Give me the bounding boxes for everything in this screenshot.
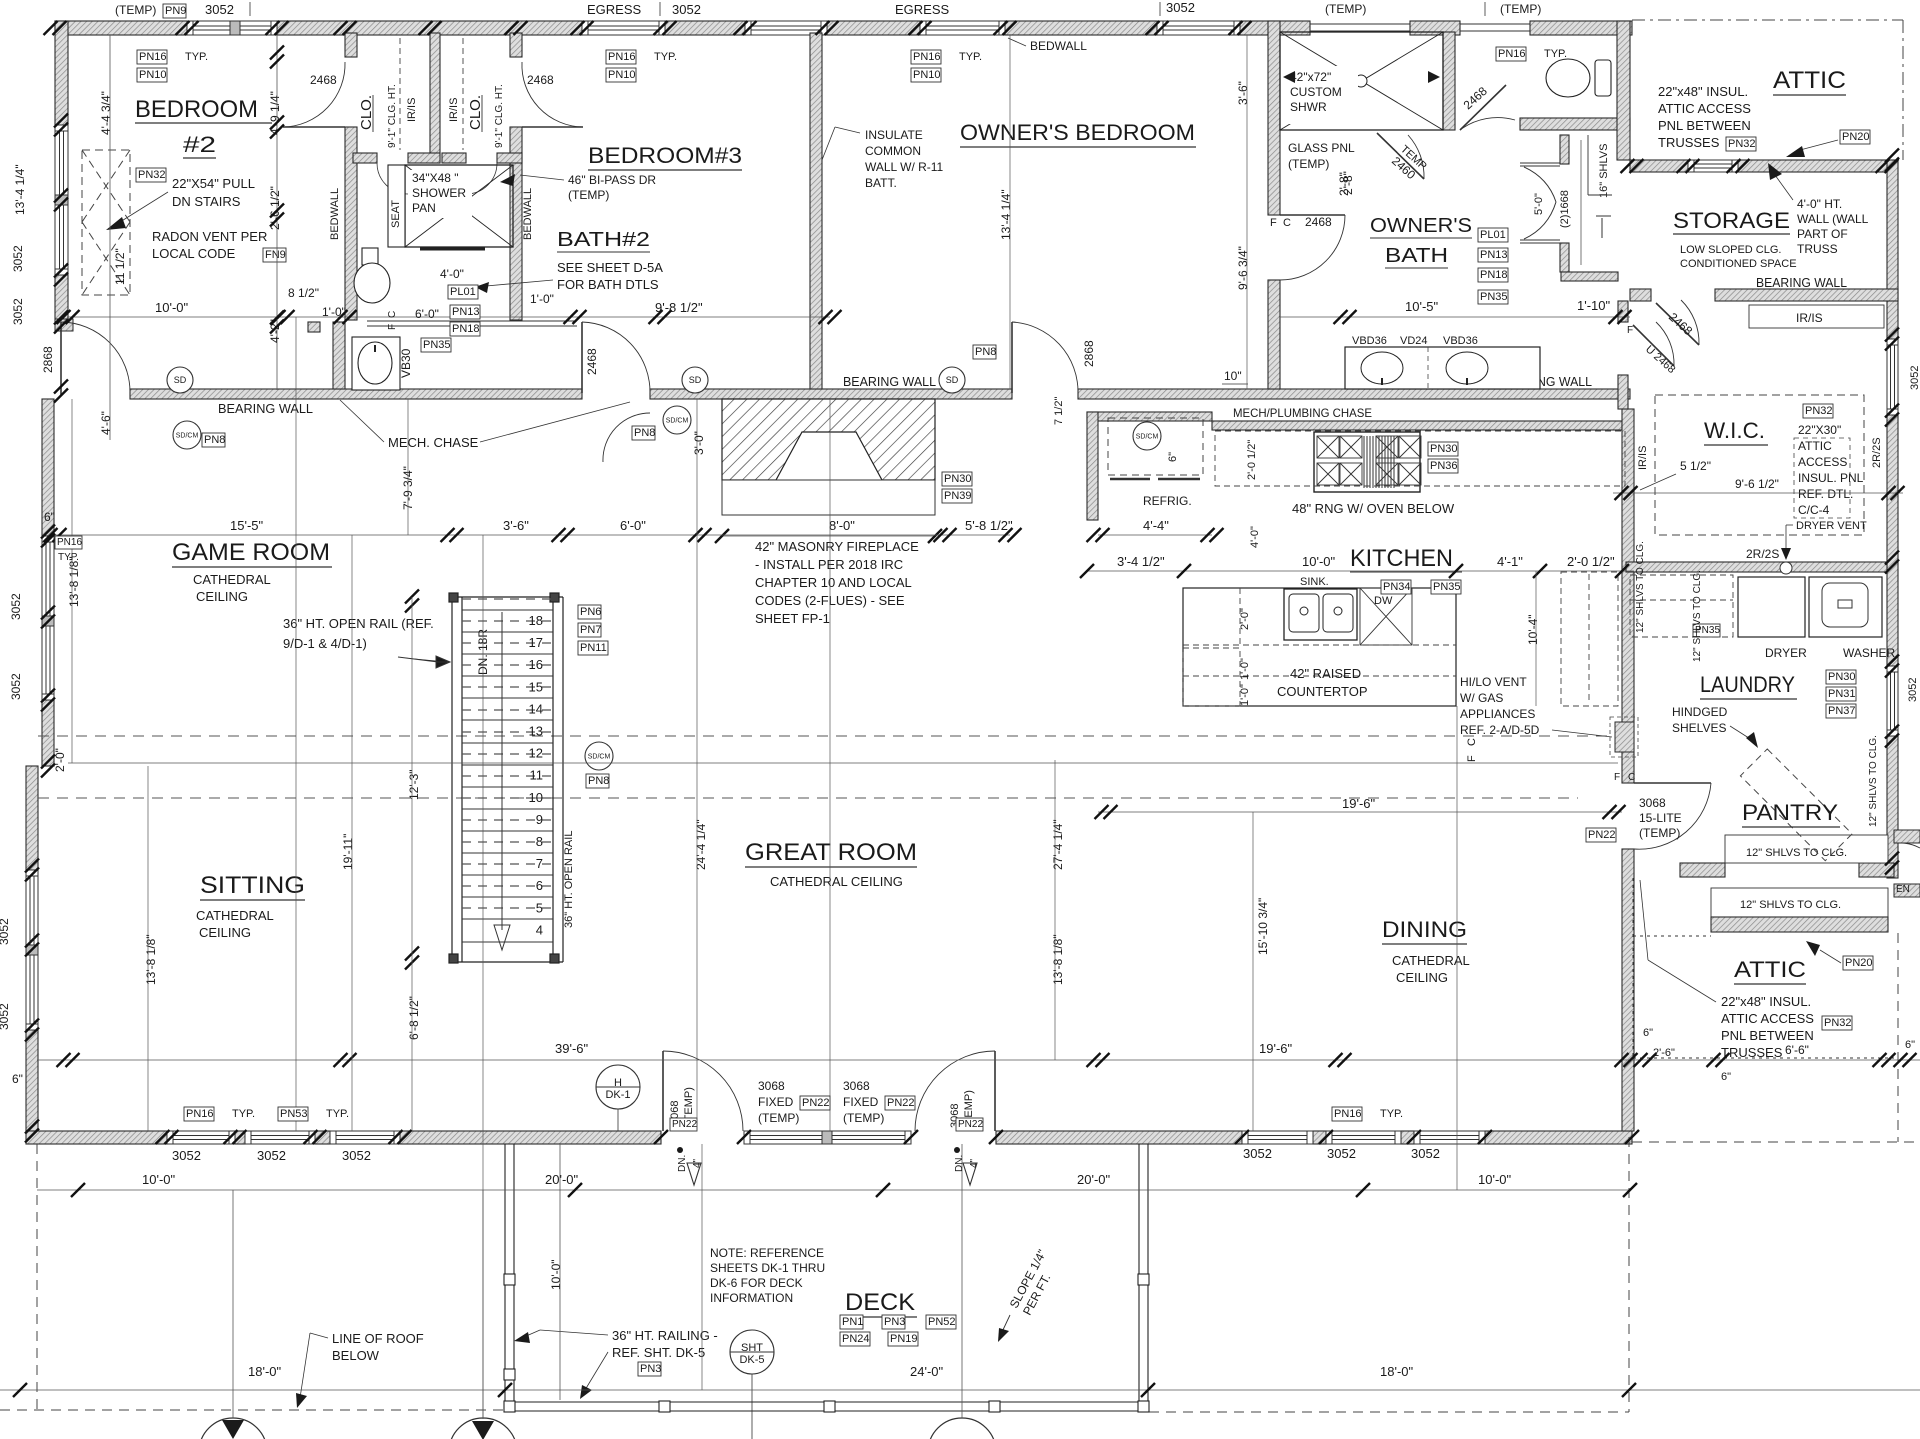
svg-text:3052: 3052 (0, 1003, 11, 1030)
kitchen counter dashed (1215, 431, 1625, 486)
wall bedwall bedroom3 west (510, 33, 522, 57)
svg-text:8 1/2": 8 1/2" (288, 286, 319, 300)
svg-text:PN16: PN16 (608, 51, 636, 63)
svg-text:(2)1668: (2)1668 (1559, 190, 1571, 228)
deck rail bottom (505, 1402, 1148, 1411)
svg-text:PN16: PN16 (186, 1108, 214, 1120)
svg-text:BEARING WALL: BEARING WALL (1756, 275, 1847, 290)
svg-text:PN20: PN20 (1842, 131, 1870, 143)
svg-text:PN16: PN16 (1334, 1108, 1362, 1120)
wall toilet room east / storage west (1617, 21, 1630, 160)
svg-text:13'-4 1/4": 13'-4 1/4" (999, 189, 1013, 240)
svg-text:10'-0": 10'-0" (1302, 554, 1336, 569)
svg-text:PNL BETWEEN: PNL BETWEEN (1658, 118, 1751, 133)
svg-text:TRUSSES: TRUSSES (1721, 1045, 1783, 1060)
svg-text:12" SHLVS TO CLG.: 12" SHLVS TO CLG. (1635, 541, 1646, 633)
svg-text:W/ GAS: W/ GAS (1460, 691, 1503, 705)
svg-text:FIXED: FIXED (843, 1095, 879, 1109)
svg-text:COUNTERTOP: COUNTERTOP (1277, 684, 1368, 699)
storage bottom wall / wic top (1630, 289, 1651, 301)
svg-text:SD/CM: SD/CM (588, 754, 611, 761)
svg-text:18'-0": 18'-0" (248, 1364, 282, 1379)
svg-text:PN7: PN7 (580, 624, 601, 636)
svg-text:1'-0": 1'-0" (1239, 658, 1251, 680)
svg-text:IR/IS: IR/IS (1796, 311, 1823, 325)
svg-text:15'-5": 15'-5" (230, 518, 264, 533)
stair top/bottom ticks (405, 590, 419, 613)
svg-text:OWNER'S: OWNER'S (1370, 215, 1472, 237)
svg-text:RADON VENT PER: RADON VENT PER (152, 229, 267, 244)
svg-text:48" RNG W/ OVEN BELOW: 48" RNG W/ OVEN BELOW (1292, 501, 1455, 516)
svg-text:HINDGED: HINDGED (1672, 705, 1728, 719)
window 3052 top-1 (187, 21, 277, 35)
svg-text:3052: 3052 (9, 673, 23, 700)
svg-text:4: 4 (536, 922, 543, 937)
svg-text:PN8: PN8 (634, 427, 655, 439)
svg-text:36" HT. OPEN RAIL (REF.: 36" HT. OPEN RAIL (REF. (283, 616, 434, 631)
svg-text:PN35: PN35 (1480, 291, 1508, 303)
svg-text:39'-6": 39'-6" (555, 1041, 589, 1056)
svg-text:PN11: PN11 (580, 642, 607, 654)
svg-text:PN13: PN13 (1480, 249, 1508, 261)
svg-text:BEDWALL: BEDWALL (329, 188, 341, 240)
window 3052 bottom-1 (167, 1131, 235, 1144)
svg-text:CEILING: CEILING (199, 925, 251, 940)
vent chase (1615, 722, 1634, 752)
svg-text:20'-0": 20'-0" (545, 1172, 579, 1187)
svg-text:DN STAIRS: DN STAIRS (172, 194, 241, 209)
svg-text:PN6: PN6 (580, 606, 601, 618)
svg-text:PN32: PN32 (1824, 1017, 1852, 1029)
svg-text:9'-1" CLG. HT.: 9'-1" CLG. HT. (387, 84, 398, 148)
svg-text:10'-4": 10'-4" (1526, 614, 1540, 645)
svg-text:VB30: VB30 (399, 348, 413, 378)
svg-text:TYP.: TYP. (1380, 1108, 1403, 1120)
svg-text:BEARING WALL: BEARING WALL (843, 374, 936, 389)
svg-text:FOR BATH DTLS: FOR BATH DTLS (557, 277, 659, 292)
dim row y535 (55, 534, 1010, 536)
svg-text:3068: 3068 (843, 1079, 870, 1093)
svg-text:(TEMP): (TEMP) (568, 188, 609, 202)
svg-text:6'-8 1/2": 6'-8 1/2" (407, 996, 421, 1040)
svg-text:BEDROOM#3: BEDROOM#3 (588, 143, 742, 168)
svg-text:12" SHLVS TO CLG.: 12" SHLVS TO CLG. (1746, 847, 1847, 859)
svg-text:CATHEDRAL: CATHEDRAL (196, 908, 274, 923)
svg-text:PAN: PAN (412, 201, 436, 215)
svg-text:SEE SHEET D-5A: SEE SHEET D-5A (557, 260, 663, 275)
svg-text:16: 16 (529, 657, 543, 672)
svg-text:3052: 3052 (11, 245, 25, 272)
svg-text:ATTIC ACCESS: ATTIC ACCESS (1721, 1011, 1814, 1026)
svg-text:GREAT ROOM: GREAT ROOM (745, 839, 917, 866)
svg-text:(TEMP): (TEMP) (1288, 157, 1329, 171)
svg-text:SD/CM: SD/CM (1136, 434, 1159, 441)
svg-text:PN36: PN36 (1430, 460, 1458, 472)
svg-text:10'-0": 10'-0" (549, 1259, 563, 1290)
svg-text:ATTIC: ATTIC (1798, 439, 1832, 453)
svg-text:PN8: PN8 (975, 346, 996, 358)
window 3052 right-1 (1887, 339, 1898, 415)
svg-text:EGRESS: EGRESS (587, 2, 642, 17)
svg-text:(TEMP): (TEMP) (843, 1111, 884, 1125)
svg-text:3'-6": 3'-6" (1236, 81, 1250, 105)
svg-text:12'-3": 12'-3" (407, 769, 421, 800)
svg-text:13'-8 1/8": 13'-8 1/8" (144, 934, 158, 985)
svg-text:3052: 3052 (11, 298, 25, 325)
svg-text:2468: 2468 (527, 73, 554, 87)
svg-text:DK-1: DK-1 (605, 1089, 630, 1101)
pn16 typ labels bottom wall (184, 1107, 214, 1121)
refrigerator dashed (1108, 418, 1203, 475)
svg-text:11 1/2": 11 1/2" (113, 248, 127, 285)
svg-text:PN20: PN20 (1845, 957, 1873, 969)
svg-text:ATTIC ACCESS: ATTIC ACCESS (1658, 101, 1751, 116)
svg-text:DINING: DINING (1382, 917, 1467, 942)
svg-text:PN16: PN16 (139, 51, 167, 63)
svg-text:DRYER VENT: DRYER VENT (1796, 520, 1867, 532)
svg-text:42"x72": 42"x72" (1290, 70, 1331, 84)
storage top wall (1630, 160, 1688, 172)
svg-text:CEILING: CEILING (196, 589, 248, 604)
svg-text:TRUSS: TRUSS (1797, 242, 1838, 256)
svg-text:3052: 3052 (672, 2, 701, 17)
svg-text:3068: 3068 (758, 1079, 785, 1093)
svg-text:SD/CM: SD/CM (666, 418, 689, 425)
shower pan bath2 (405, 165, 513, 247)
svg-text:12" SHLVS TO CLG.: 12" SHLVS TO CLG. (1692, 570, 1703, 662)
svg-text:7: 7 (536, 856, 543, 871)
wall left sitting (26, 766, 38, 870)
svg-text:4'-4 3/4": 4'-4 3/4" (99, 91, 113, 135)
svg-text:TYP.: TYP. (232, 1108, 255, 1120)
svg-text:IR/IS: IR/IS (448, 98, 460, 122)
svg-text:TYP.: TYP. (959, 51, 982, 63)
sht dk-5 circle (730, 1330, 774, 1374)
wall kitchen west (1087, 412, 1098, 520)
svg-text:36" HT. OPEN RAIL: 36" HT. OPEN RAIL (563, 831, 575, 928)
svg-text:16" SHLVS: 16" SHLVS (1598, 144, 1610, 198)
svg-text:3052: 3052 (172, 1148, 201, 1163)
dryer (1738, 577, 1805, 637)
pn labels bedroom3 (606, 50, 636, 64)
window 3068 fixed bottom-4 (744, 1131, 911, 1144)
svg-text:3'-0": 3'-0" (692, 431, 706, 455)
svg-text:14: 14 (529, 701, 543, 716)
svg-text:IR/IS: IR/IS (1637, 446, 1649, 470)
svg-text:BATH: BATH (1385, 245, 1448, 267)
svg-text:PN9: PN9 (165, 5, 186, 17)
svg-text:PN31: PN31 (1828, 688, 1856, 700)
svg-text:F: F (1627, 325, 1633, 336)
pulldown stairs note (136, 168, 166, 182)
ceiling break dashed lines (38, 735, 1620, 737)
window 3052 bottom-3 (330, 1131, 400, 1144)
svg-text:BELOW: BELOW (332, 1348, 380, 1363)
wall stub game room corner (55, 319, 73, 331)
svg-text:1'-0": 1'-0" (530, 292, 554, 306)
svg-text:PN30: PN30 (1828, 671, 1856, 683)
svg-text:PART OF: PART OF (1797, 227, 1848, 241)
door 2468 bedroom3 (522, 62, 583, 127)
stair treads (462, 610, 553, 942)
mech plumbing chase lower wall (1087, 412, 1212, 421)
door 2468 bedroom2 closet side (283, 62, 345, 127)
svg-text:12: 12 (529, 746, 543, 761)
pantry north walls (1680, 863, 1725, 877)
svg-text:WALL W/ R-11: WALL W/ R-11 (865, 160, 944, 174)
stair down arrow (501, 612, 503, 930)
svg-text:PN10: PN10 (913, 69, 941, 81)
svg-text:3052: 3052 (257, 1148, 286, 1163)
svg-text:PN16: PN16 (1498, 48, 1526, 60)
svg-text:1'-0": 1'-0" (322, 305, 346, 319)
svg-text:6": 6" (12, 1072, 23, 1086)
svg-text:SD/CM: SD/CM (176, 433, 199, 440)
svg-text:PN19: PN19 (890, 1333, 918, 1345)
svg-text:18: 18 (529, 613, 543, 628)
svg-text:9'-8 1/2": 9'-8 1/2" (655, 300, 703, 315)
svg-text:C: C (1466, 738, 1478, 746)
svg-text:C: C (387, 311, 398, 318)
svg-text:3052: 3052 (1243, 1146, 1272, 1161)
storage dim ticks (1621, 159, 1644, 173)
bath2 hall pocket walls (308, 322, 320, 332)
svg-text:PL01: PL01 (450, 286, 476, 298)
svg-text:5 1/2": 5 1/2" (1680, 459, 1711, 473)
svg-text:6'-0": 6'-0" (620, 518, 646, 533)
washer (1809, 577, 1882, 637)
svg-text:4'-0": 4'-0" (440, 267, 464, 281)
svg-text:VBD36: VBD36 (1352, 335, 1387, 347)
svg-text:2468: 2468 (1305, 215, 1332, 229)
svg-text:3052: 3052 (342, 1148, 371, 1163)
svg-text:9: 9 (536, 812, 543, 827)
deck rail posts (504, 1274, 515, 1285)
svg-text:3052: 3052 (1327, 1146, 1356, 1161)
svg-text:PN22: PN22 (672, 1119, 697, 1130)
svg-text:CATHEDRAL: CATHEDRAL (1392, 953, 1470, 968)
bearing wall mid (y391) (130, 389, 582, 399)
window 3052 egress top-4 (920, 21, 1005, 35)
svg-text:C: C (1283, 217, 1291, 229)
svg-text:TYP.: TYP. (326, 1108, 349, 1120)
svg-text:COMMON: COMMON (865, 144, 921, 158)
custom shower (1280, 32, 1443, 130)
svg-text:PANTRY: PANTRY (1742, 800, 1838, 825)
svg-text:BEDROOM: BEDROOM (135, 96, 258, 123)
svg-text:CEILING: CEILING (1396, 970, 1448, 985)
glass panel shower top (1310, 24, 1410, 31)
svg-text:MECH/PLUMBING CHASE: MECH/PLUMBING CHASE (1233, 406, 1372, 420)
window 3052 right-2 (1887, 666, 1898, 736)
svg-text:VBD36: VBD36 (1443, 335, 1478, 347)
svg-text:6'-6": 6'-6" (1785, 1043, 1809, 1057)
door 2868 owners bedroom (1012, 322, 1078, 393)
svg-text:PN18: PN18 (452, 323, 480, 335)
dim row y1187 (37, 1189, 1630, 1191)
svg-text:TYP.: TYP. (1544, 48, 1567, 60)
door 2468 owners bath (1280, 215, 1345, 280)
svg-text:PN35: PN35 (423, 339, 451, 351)
wall owners bath west (1268, 21, 1280, 215)
svg-text:20'-0": 20'-0" (1077, 1172, 1111, 1187)
svg-text:4'-1": 4'-1" (1497, 554, 1523, 569)
svg-text:- INSTALL PER 2018 IRC: - INSTALL PER 2018 IRC (755, 557, 903, 572)
svg-text:MECH. CHASE: MECH. CHASE (388, 435, 479, 450)
svg-text:LAUNDRY: LAUNDRY (1700, 672, 1795, 697)
svg-text:SHOWER: SHOWER (412, 186, 466, 200)
island sink (1284, 589, 1357, 640)
svg-text:22"x48" INSUL.: 22"x48" INSUL. (1721, 994, 1811, 1009)
egress/3052 misc ticks top (44, 21, 67, 35)
svg-text:GAME ROOM: GAME ROOM (172, 539, 330, 566)
bottom wall ticks (156, 1130, 179, 1144)
svg-text:2'-0": 2'-0" (1239, 608, 1251, 630)
svg-text:2868: 2868 (41, 346, 55, 373)
door 2468 toilet room (1460, 85, 1515, 130)
svg-text:3052: 3052 (1909, 366, 1920, 390)
svg-text:6": 6" (1643, 1027, 1653, 1039)
svg-text:34"X48 ": 34"X48 " (412, 171, 459, 185)
wall bottom exterior (26, 1131, 167, 1144)
svg-text:10'-0": 10'-0" (1478, 1172, 1512, 1187)
svg-text:C: C (1628, 772, 1635, 783)
svg-text:SD: SD (946, 375, 959, 385)
wall bedroom3/owners divider (810, 33, 822, 389)
svg-text:PN30: PN30 (944, 473, 972, 485)
svg-text:IR/IS: IR/IS (406, 98, 418, 122)
svg-text:24'-4 1/4": 24'-4 1/4" (694, 819, 708, 870)
svg-text:PN32: PN32 (138, 169, 166, 181)
svg-text:DRYER: DRYER (1765, 646, 1807, 660)
svg-text:F: F (1466, 755, 1478, 762)
svg-text:27'-4 1/4": 27'-4 1/4" (1051, 819, 1065, 870)
pulldown stairs dashed (82, 150, 130, 295)
svg-text:15: 15 (529, 679, 543, 694)
svg-text:PN16: PN16 (57, 537, 82, 548)
window 3052 left-1 (55, 125, 68, 275)
door 2468 hall to great room (582, 322, 650, 393)
svg-text:PN22: PN22 (958, 1119, 983, 1130)
wall left exterior upper (55, 21, 68, 125)
door 3068 pantry 15-lite (1634, 783, 1711, 849)
svg-text:22"X30": 22"X30" (1798, 423, 1841, 437)
svg-text:10'-0": 10'-0" (142, 1172, 176, 1187)
roof dashed right of house (1632, 1141, 1920, 1143)
svg-text:SD: SD (689, 375, 702, 385)
svg-text:19'-6": 19'-6" (1342, 796, 1376, 811)
svg-text:12" SHLVS TO CLG.: 12" SHLVS TO CLG. (1868, 735, 1879, 827)
svg-text:3052: 3052 (1411, 1146, 1440, 1161)
svg-text:SEAT: SEAT (390, 200, 402, 228)
svg-text:SHEET FP-1: SHEET FP-1 (755, 611, 830, 626)
svg-text:REFRIG.: REFRIG. (1143, 494, 1192, 508)
svg-text:6": 6" (1721, 1071, 1731, 1083)
svg-text:CLO.: CLO. (467, 95, 484, 130)
svg-text:(TEMP): (TEMP) (1325, 2, 1366, 16)
svg-text:2'-0": 2'-0" (53, 748, 67, 772)
svg-text:C/C-4: C/C-4 (1798, 503, 1830, 517)
svg-text:19'-11": 19'-11" (341, 834, 355, 870)
svg-text:6": 6" (1905, 1039, 1915, 1051)
fireplace hearth (722, 480, 935, 515)
vanity owners (1345, 347, 1540, 389)
svg-text:7 1/2": 7 1/2" (1053, 397, 1065, 425)
svg-text:2468: 2468 (585, 348, 599, 375)
slope note (1007, 1247, 1063, 1317)
toilet room bottom wall (1520, 118, 1630, 130)
door 2468 storage to wic (1656, 300, 1699, 345)
range 48in (1314, 432, 1420, 492)
laundry cabinets dashed (1630, 575, 1733, 637)
svg-text:1'-10": 1'-10" (1577, 298, 1611, 313)
svg-text:SD: SD (174, 375, 187, 385)
svg-text:BATH#2: BATH#2 (557, 229, 650, 251)
svg-text:SHEETS DK-1 THRU: SHEETS DK-1 THRU (710, 1261, 825, 1275)
svg-text:CATHEDRAL CEILING: CATHEDRAL CEILING (770, 874, 903, 889)
svg-text:SINK.: SINK. (1300, 576, 1329, 588)
svg-text:PN53: PN53 (280, 1108, 308, 1120)
linen closet bottom wall (1561, 272, 1618, 281)
svg-text:PN8: PN8 (204, 434, 225, 446)
svg-text:2'-0 1/2": 2'-0 1/2" (1246, 440, 1258, 480)
svg-text:10": 10" (1224, 369, 1242, 383)
svg-text:3052: 3052 (205, 2, 234, 17)
svg-text:PN37: PN37 (1828, 705, 1856, 717)
svg-text:2468: 2468 (310, 73, 337, 87)
svg-text:42" MASONRY FIREPLACE: 42" MASONRY FIREPLACE (755, 539, 919, 554)
roof dashed below-right (1149, 1411, 1629, 1413)
svg-text:24'-0": 24'-0" (910, 1364, 944, 1379)
svg-text:22"X54" PULL: 22"X54" PULL (172, 176, 255, 191)
owners bath pn boxes (1478, 228, 1508, 242)
svg-text:DK-5: DK-5 (739, 1354, 764, 1366)
door 2868 bedroom2 entry (61, 322, 130, 395)
linen closet double doors 1668 (1520, 163, 1560, 243)
sd hall (682, 367, 708, 393)
svg-text:3052: 3052 (0, 918, 11, 945)
svg-text:9/D-1 & 4/D-1): 9/D-1 & 4/D-1) (283, 636, 367, 651)
svg-text:GLASS PNL: GLASS PNL (1288, 141, 1355, 155)
svg-text:9'-6 1/2": 9'-6 1/2" (1735, 477, 1779, 491)
svg-text:PN32: PN32 (1728, 138, 1756, 150)
pn6 pn7 pn11 boxes (578, 605, 601, 619)
H DK-1 circle (596, 1065, 640, 1109)
closet divider wall (430, 33, 440, 163)
wall bedwall bedroom2 (345, 33, 357, 57)
svg-text:LOW SLOPED CLG.: LOW SLOPED CLG. (1680, 244, 1781, 256)
svg-text:4'-0": 4'-0" (1249, 526, 1261, 548)
svg-text:TYP.: TYP. (185, 51, 208, 63)
right wall ticks (1885, 149, 1899, 172)
pantry bottom wall (1711, 917, 1888, 932)
wic west wall stubs (1618, 301, 1628, 322)
storage shelf (1749, 305, 1884, 328)
svg-text:PN16: PN16 (913, 51, 941, 63)
svg-text:DK-6 FOR DECK: DK-6 FOR DECK (710, 1276, 803, 1290)
svg-text:8'-0": 8'-0" (829, 518, 855, 533)
svg-text:LOCAL CODE: LOCAL CODE (152, 246, 236, 261)
svg-text:PN22: PN22 (887, 1097, 915, 1109)
door deck right (915, 1051, 995, 1131)
svg-text:(TEMP): (TEMP) (1639, 826, 1680, 840)
svg-text:PN24: PN24 (842, 1333, 870, 1345)
svg-text:5'-0": 5'-0" (1533, 193, 1545, 215)
svg-text:10: 10 (529, 790, 543, 805)
svg-text:#2: #2 (183, 132, 216, 157)
svg-text:CONDITIONED SPACE: CONDITIONED SPACE (1680, 258, 1797, 270)
closet bifold arcs (377, 163, 408, 194)
